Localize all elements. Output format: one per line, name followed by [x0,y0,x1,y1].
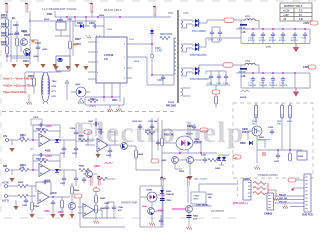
capacitor C713 [271,77,275,83]
svg-text:C851 24VAC: C851 24VAC [196,203,209,206]
wire r803 out [89,139,95,141]
resistor R832 [289,105,292,118]
power flag VCC3 [90,3,93,12]
resistor R801 [19,138,29,141]
svg-text:+B: +B [234,157,237,159]
drive transformer T602 ellipse [41,72,49,102]
opto LED magenta [181,140,185,146]
svg-text:(PD-CELL): (PD-CELL) [233,201,248,205]
ground G6 [74,64,79,68]
svg-text:R614: R614 [134,60,140,63]
pin stubs left U601 [88,42,96,79]
transistor Q801 [121,143,128,150]
svg-text:C811 104: C811 104 [148,120,158,123]
node J18 [200,152,202,154]
node J4 [74,16,76,18]
wire stage3 out [106,144,120,146]
svg-text:D820: D820 [215,168,221,170]
resistor R862 [31,202,34,210]
svg-text:T601: T601 [168,12,174,15]
connector CN801 [243,180,251,200]
power flag DA1 [89,176,92,185]
wire u840 bottom [83,210,117,218]
relay box K601 [56,22,66,30]
test point circle TP1 [150,54,153,57]
svg-text:OUTPUT VOLT: OUTPUT VOLT [284,4,303,8]
svg-text:C830: C830 [268,127,274,129]
svg-text:SUB PCB: SUB PCB [302,214,313,217]
earth ground fan [274,196,279,201]
opto arrow Q842 [153,195,156,199]
label bus2 left [240,68,247,70]
transformer primary winding [174,38,176,74]
svg-text:1 CAP: 1 CAP [155,50,162,53]
wire secondary center taps [187,24,193,76]
earth ground da [94,219,99,224]
feedback wire stage1 [33,125,60,140]
resistor R807 [145,131,155,134]
svg-text:T602: T602 [52,81,58,83]
svg-text:F601: F601 [47,13,53,16]
node J8 [151,43,153,45]
wire c820 rail [162,124,194,130]
feedback capacitor C808 [98,130,104,134]
svg-text:R606: R606 [24,34,30,37]
connector CN803 [304,174,311,212]
relay box K830 [297,151,307,160]
wire u840 inputs [78,207,102,213]
net flag TP oval [93,188,100,192]
resistor R804 [19,168,29,171]
net flag MUTE oval [84,130,92,134]
capacitor C812 [156,140,160,146]
capacitor C706 [261,32,265,38]
wire c603 [75,17,104,37]
node J19 [277,149,279,151]
wire stage2 out [50,169,76,171]
svg-text:REG: REG [194,199,199,201]
capacitor C821 [203,157,207,163]
wire under q822 [175,160,203,175]
red resistor zig 2 [253,187,266,190]
wire q830 [248,131,265,150]
vertical rail M1 [161,120,163,178]
resistor R702 [215,96,218,104]
svg-text:RIN: RIN [3,165,7,168]
wire mid bus [162,152,217,154]
diode D603 [58,58,62,61]
svg-text:C802: C802 [60,153,66,155]
transistor Q843 arrow [151,212,154,215]
svg-text:CN802: CN802 [264,212,273,216]
bus2 lower rail [241,73,310,88]
svg-text:140: 140 [299,18,304,21]
pins CN802 [268,196,271,208]
svg-text:13VS: 13VS [303,66,309,69]
sheet tick marks bottom [4,217,236,219]
magenta wire [172,208,186,210]
node J20 [289,149,291,151]
svg-text:D601: D601 [23,60,29,63]
svg-text:L2A: L2A [241,75,246,78]
svg-text:C603: C603 [89,22,95,25]
ground hp3 [59,214,64,218]
svg-text:D822: D822 [179,171,185,173]
svg-text:1N4148: 1N4148 [166,193,174,196]
svg-text:LC5546: LC5546 [104,53,114,57]
red arrow mark [291,188,294,191]
wire cluster v1 [17,36,21,62]
wire c805 [63,170,65,186]
svg-text:Q822: Q822 [161,160,167,162]
wire pa rails [256,103,290,150]
capacitor C861 [42,180,48,184]
resistor R863 [61,200,64,208]
svg-text:Q8xx C5198: Q8xx C5198 [194,179,207,181]
svg-text:R833: R833 [259,137,265,139]
feedback capacitor C801 [38,123,44,127]
svg-text:+13V: +13V [283,14,289,17]
svg-text:R853: R853 [158,210,164,213]
resistor R834 [289,153,292,161]
svg-text:C611: C611 [67,19,73,21]
net flag HPOUT [74,194,82,198]
capacitor C816 [74,130,78,136]
bus2 rail [236,72,310,74]
wire T602 bottom leads [42,102,48,104]
svg-text:10K: 10K [20,137,25,140]
wire q801 out [127,146,136,150]
power flag VCC4 [153,6,156,15]
wire d701 out [192,20,207,25]
ground pa [255,165,260,170]
diode D604 [150,30,154,33]
svg-text:D702 SBL2040: D702 SBL2040 [190,54,207,57]
feedback up arrow [65,80,69,100]
dashed box power assist [233,103,313,178]
resistor R841 [95,205,98,213]
wire output block [141,197,163,221]
wire q850 down [188,212,190,224]
wire r806 down [136,158,160,170]
wire c803 [75,140,77,158]
resistor R821 [208,158,218,161]
wire d702 out [192,38,241,49]
svg-text:VREF: VREF [194,196,200,198]
wire snubber rails [206,71,230,85]
svg-text:R803: R803 [79,136,85,138]
capacitor C803 [74,146,78,152]
capacitor C841 [112,205,116,211]
input terminal IN2 [6,169,9,172]
squiggle AGND [241,90,249,92]
svg-text:C808: C808 [97,129,103,131]
wire r864 [71,183,73,203]
ground G3 [40,64,45,68]
svg-text:Q603: Q603 [75,84,81,86]
thermistor TH601 orange [32,41,35,43]
thermistor TH602 orange [74,44,77,46]
wire in1 [9,140,39,145]
wire opto [71,91,90,93]
label +5.3V left [240,24,247,26]
resistor R830 [255,105,258,118]
svg-text:R611: R611 [112,99,118,102]
resistor R861 [18,194,28,197]
ground stage2 in [9,178,14,182]
power flag VCC1 [5,3,8,12]
capacitor C811 [150,124,154,130]
power flag DA2 [97,176,100,185]
capacitor C831 [276,153,280,159]
svg-text:470/2A: 470/2A [239,70,246,73]
ground arrow bus1 [294,44,299,52]
wire caps [107,202,114,218]
svg-text:Type=(Dev) 16ns: Type=(Dev) 16ns [3,90,27,94]
diode D802 [55,169,59,172]
svg-text:MULTI VOLT: MULTI VOLT [104,8,122,12]
wire main rail top [17,11,96,64]
wire r609 [25,72,34,94]
svg-text:Q603: Q603 [42,49,48,51]
svg-text:C803: C803 [72,153,78,155]
wire c842 [160,215,162,227]
svg-text:R840: R840 [100,197,106,200]
sheet tick marks left [0,14,2,212]
wire diodes to flag [217,155,230,165]
wire c802 [63,140,65,158]
feedback wire stage2 [33,155,60,170]
inductor L702 [245,63,255,65]
wire in2 [9,170,39,175]
opto transistor arrow [188,141,192,146]
svg-text:LN: LN [104,57,108,61]
transistor Q601 [21,39,28,46]
capacitor C714 [281,77,285,83]
net flag F13V [308,65,316,69]
capacitor C709 [293,32,297,38]
svg-text:C815: C815 [33,117,39,119]
earth ground IC2 [117,107,122,112]
node J1 [6,55,8,57]
svg-text:B+: B+ [12,16,16,20]
wire rails into box [70,17,73,56]
svg-text:C715: C715 [208,40,214,42]
diode D850 [160,190,164,193]
transformer secondary winding [181,20,183,96]
resistor R808 [97,177,107,180]
inductor L701 [245,19,255,21]
wire k601 [55,17,70,36]
capacitor C862 [51,200,55,206]
wire opto [162,143,201,153]
wire ac rail 1 [161,187,163,225]
wire ac rail 2 [187,187,189,203]
svg-text:C710: C710 [301,38,307,40]
svg-text:4558: 4558 [45,150,51,153]
capacitor C860 [24,198,28,204]
svg-text:Q604: Q604 [33,55,39,58]
wire primary conn [172,38,176,85]
wire ic gnd [110,105,119,107]
svg-text:C801: C801 [46,124,53,128]
IC bottom network wires [85,89,124,105]
svg-text:10K: 10K [20,167,25,170]
ground hp2 [50,214,55,218]
ground g7 [53,66,58,70]
svg-text:R806: R806 [138,154,144,156]
svg-text:R810 22K: R810 22K [36,159,46,161]
transistor Q850 [186,206,193,213]
svg-text:C860: C860 [22,205,28,207]
svg-text:PC123: PC123 [186,134,193,136]
wire q860 down [71,209,73,214]
svg-text:C841: C841 [118,206,124,209]
wire q850 out [192,205,212,207]
op-amp U840 [83,204,94,217]
svg-text:K601: K601 [57,19,63,22]
small box X601 [56,56,70,71]
svg-text:1000/25: 1000/25 [248,85,257,87]
svg-text:C810 104: C810 104 [132,120,142,123]
ground G2 [24,64,29,68]
resistor R803 [79,138,89,141]
svg-text:D701 SB360: D701 SB360 [192,30,206,33]
wire q802 [83,174,115,179]
capacitor C810 [138,124,142,130]
bus1 lower rail [241,29,310,44]
capacitor C840 [105,205,109,211]
ground G1 [11,64,16,68]
resistor R840 [95,195,98,203]
svg-text:C816: C816 [70,128,76,130]
svg-text:R607: R607 [75,38,81,41]
node J5 [85,16,87,18]
svg-text:Vd(1)=~=(Zc/cos7Dot): Vd(1)=~=(Zc/cos7Dot) [3,84,34,88]
output voltage table [280,3,312,21]
wire fan gnd [268,190,276,196]
feedback capacitor C804 [38,153,44,157]
opto LED Q842 [150,195,153,200]
net flag top red [288,178,296,182]
svg-text:R807: R807 [145,130,151,132]
svg-text:CN801: CN801 [243,178,251,180]
node J11 [103,96,105,98]
earth ground ac [187,225,192,230]
capacitor C603 [92,24,98,28]
node J15 [32,169,34,171]
svg-text:R862: R862 [34,206,40,208]
svg-text:C613: C613 [22,32,28,34]
node J17 [179,152,181,154]
wire d604 down [132,28,152,75]
net flag TOMAIN oval [151,159,159,163]
node J10 [198,70,200,72]
ground g9 [83,66,88,70]
svg-text:D830: D830 [240,142,246,145]
svg-text:L701: L701 [245,16,251,18]
svg-text:C831: C831 [274,161,280,163]
resistor R860 [18,184,28,187]
wire hp-in gnd [15,200,17,206]
svg-text:470/16: 470/16 [248,39,255,42]
wire r810 [33,160,60,162]
resistor R810 feedback [38,159,48,162]
wire stage1 out [50,139,76,141]
svg-text:C862: C862 [44,210,50,213]
svg-text:DRV: DRV [52,86,57,88]
svg-text:C807: C807 [88,121,94,123]
ground arrow bus2 [294,88,299,96]
pin stubs bottom U601 [104,83,120,89]
svg-text:RELAY: RELAY [279,193,287,196]
svg-text:AGND: AGND [240,96,247,99]
wire r841 [95,203,97,219]
snubber C703 [217,74,221,80]
svg-text:R616: R616 [14,34,20,36]
capacitor C708 [281,32,285,38]
svg-text:R805: R805 [79,166,85,168]
net flag F5V [310,21,318,25]
wire c809 [109,145,111,158]
svg-text:DRIVER AMP: DRIVER AMP [121,201,137,205]
box driver amp [80,196,125,227]
capacitor C852 polarized [187,216,192,218]
svg-text:470/1A: 470/1A [239,26,246,29]
transistor Q802 [86,171,93,178]
capacitor C809 [108,148,112,154]
diode Q801 arrow [122,144,125,148]
diode D601 [26,52,29,56]
net flag +13V [212,90,220,94]
transistor Q860 [69,203,76,210]
resistor R610 [88,99,98,102]
AC source mark 2 [96,35,101,39]
diode D702 pair [195,43,198,47]
power flag VCC2 [25,3,28,12]
vertical rail V1 [95,118,97,136]
sheet tick marks top [4,0,316,2]
pins CN803 [305,177,308,209]
capacitor C815 secondary [31,119,42,125]
wire T602 top leads [26,72,62,76]
capacitor C806 [74,176,78,182]
svg-text:LIN: LIN [3,135,7,138]
mosfet Q830 [252,126,262,136]
wire c606 [162,75,164,85]
wire r702 [215,94,217,108]
svg-text:AC IN: AC IN [2,182,9,185]
svg-text:+5VS: +5VS [303,22,309,25]
net flag F5.3 [200,128,208,132]
svg-text:R809 22K: R809 22K [36,129,46,131]
wire l702 out [241,65,259,88]
transistor Q843 [148,208,155,215]
svg-text:PW ON: PW ON [279,201,287,203]
red resistor zig 3 [253,192,266,195]
capacitor C805 [62,176,66,182]
capacitor C813 [82,177,86,183]
connector CN802 [267,193,274,210]
earth ground IC1 [108,107,113,112]
svg-text:Q802: Q802 [94,165,101,168]
earth ground rd [150,221,155,226]
node J3 [66,16,68,18]
svg-text:C606: C606 [157,79,163,82]
capacitor C807 [93,122,99,126]
wire vref top [199,184,238,192]
svg-text:R864: R864 [74,189,80,192]
